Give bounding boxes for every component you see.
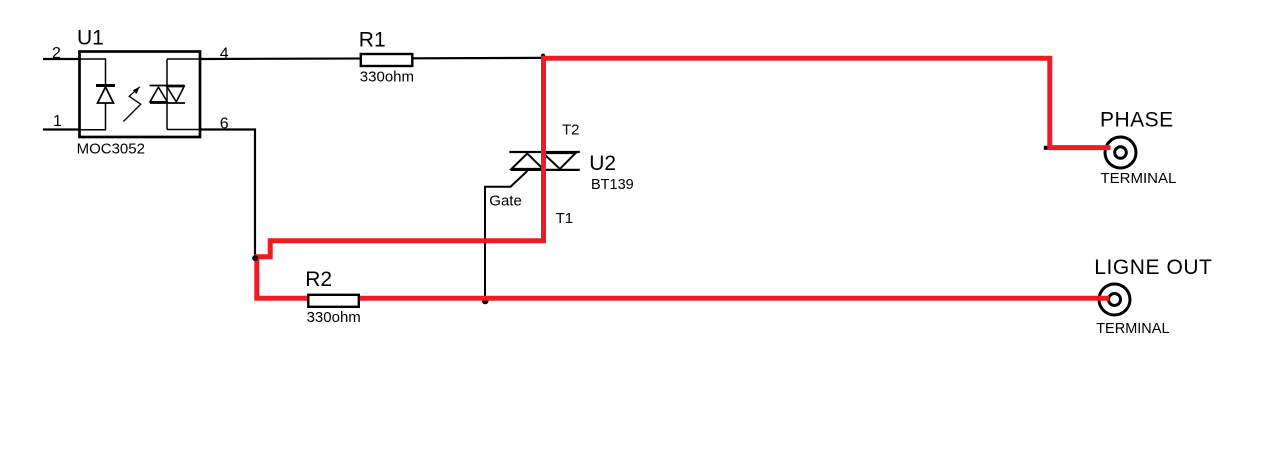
svg-text:LIGNE OUT: LIGNE OUT: [1094, 256, 1212, 279]
svg-text:4: 4: [220, 46, 229, 63]
svg-text:6: 6: [220, 115, 229, 132]
svg-text:330ohm: 330ohm: [360, 69, 414, 86]
svg-text:T2: T2: [562, 122, 580, 139]
svg-text:U2: U2: [589, 152, 616, 175]
svg-text:2: 2: [52, 45, 61, 62]
svg-text:TERMINAL: TERMINAL: [1101, 170, 1177, 187]
svg-text:MOC3052: MOC3052: [77, 141, 145, 158]
svg-text:U1: U1: [77, 26, 104, 49]
svg-text:R1: R1: [359, 28, 386, 51]
svg-text:BT139: BT139: [591, 177, 634, 193]
svg-text:T1: T1: [556, 210, 574, 227]
svg-text:1: 1: [53, 113, 62, 130]
svg-text:Gate: Gate: [489, 193, 522, 210]
svg-text:TERMINAL: TERMINAL: [1096, 321, 1169, 337]
svg-text:330ohm: 330ohm: [307, 309, 361, 326]
svg-text:R2: R2: [305, 268, 332, 291]
svg-text:PHASE: PHASE: [1100, 108, 1174, 131]
